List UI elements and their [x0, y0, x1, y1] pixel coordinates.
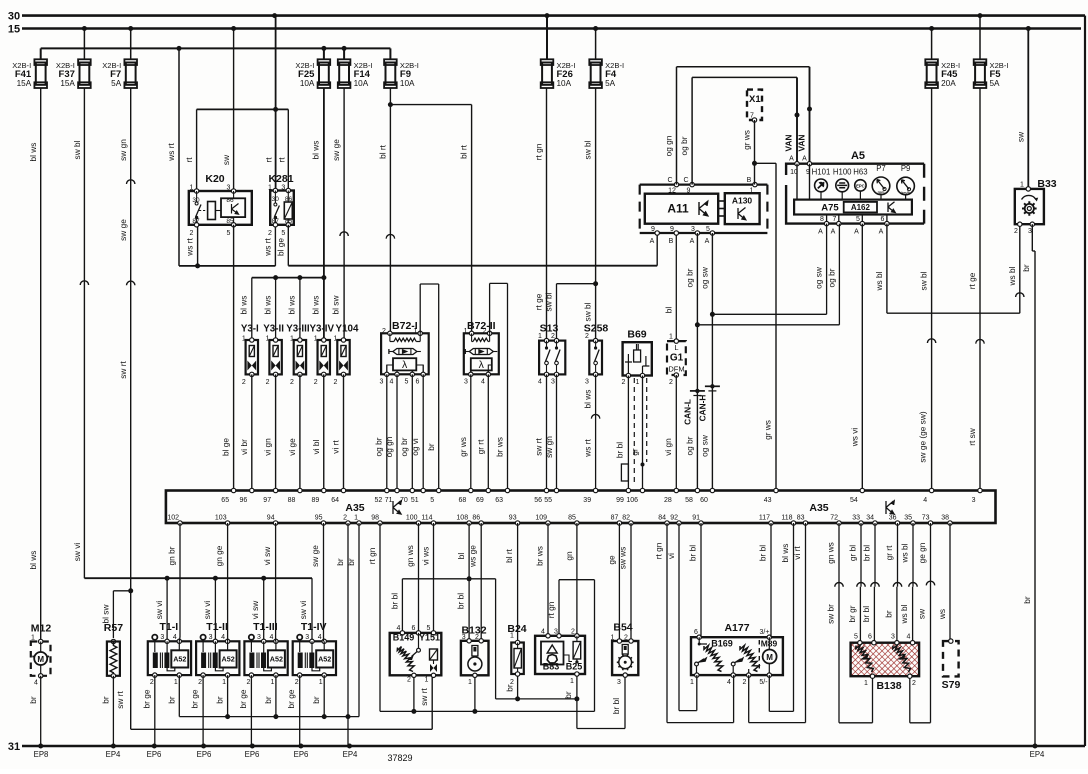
svg-text:118: 118	[781, 515, 792, 522]
solenoid valve Y3-II	[263, 324, 284, 387]
solenoid valve Y104	[334, 324, 359, 387]
switch S258	[584, 323, 609, 386]
svg-text:br bl: br bl	[862, 545, 872, 561]
wire T1-III pin2 br ge to EP6	[238, 675, 252, 746]
svg-text:EPC: EPC	[856, 183, 865, 188]
wire G1 pin2 vi gn to A35 pin28	[663, 375, 677, 491]
svg-text:sw rt: sw rt	[118, 361, 128, 379]
svg-text:1: 1	[270, 679, 274, 686]
svg-text:EP6: EP6	[197, 750, 212, 759]
knock sensor B69	[621, 329, 651, 387]
ground EP4 right	[1030, 744, 1045, 760]
svg-text:bl ws: bl ws	[780, 544, 790, 563]
wire A35 pin114 vi ws to Y151 pin5	[421, 523, 434, 633]
svg-text:og br: og br	[373, 437, 383, 456]
wire R57 br to EP4	[100, 676, 113, 746]
svg-text:5A: 5A	[990, 79, 1001, 88]
wire M12 br to EP8	[28, 676, 41, 746]
wire B69 pin2 br bl to A35 pin99	[615, 376, 629, 491]
wire B72-II pin4 to A35 pin69 gr rt	[475, 374, 488, 490]
svg-text:sw ge: sw ge	[310, 545, 320, 567]
instrument cluster A5	[786, 150, 924, 224]
svg-text:20A: 20A	[941, 79, 956, 88]
wire A35 pin109 br ws to B83 pin4	[535, 523, 549, 636]
svg-text:56: 56	[534, 497, 542, 504]
svg-text:sw bl: sw bl	[583, 140, 593, 159]
svg-text:31: 31	[8, 741, 20, 753]
svg-text:2: 2	[912, 680, 916, 687]
svg-text:35: 35	[904, 515, 912, 522]
warning lamp H100	[833, 168, 852, 200]
svg-text:bl ws: bl ws	[263, 296, 273, 315]
svg-text:rt gn: rt gn	[367, 547, 377, 564]
svg-text:ws: ws	[937, 609, 947, 620]
svg-text:sw bl: sw bl	[583, 302, 593, 321]
svg-text:ge gn: ge gn	[917, 542, 927, 563]
svg-text:H100: H100	[833, 168, 852, 177]
fuse F26	[541, 59, 576, 88]
ignition coil T1-I	[148, 621, 191, 686]
svg-text:S13: S13	[540, 323, 559, 335]
svg-text:70: 70	[400, 497, 408, 504]
svg-text:br: br	[263, 696, 273, 704]
pedal sensor B138	[851, 634, 920, 693]
wire fuse F37 supply	[83, 29, 85, 60]
svg-text:5A: 5A	[111, 79, 122, 88]
wire gr ws branch to A35 pin43	[755, 163, 777, 490]
svg-text:S79: S79	[942, 679, 961, 691]
svg-text:sw ge: sw ge	[118, 219, 128, 241]
svg-text:A52: A52	[318, 655, 331, 664]
svg-text:69: 69	[476, 497, 484, 504]
ground EP6 3	[245, 744, 260, 760]
svg-text:sw ws: sw ws	[618, 547, 628, 570]
svg-text:114: 114	[421, 515, 432, 522]
svg-text:98: 98	[371, 515, 379, 522]
svg-text:2: 2	[268, 230, 272, 237]
svg-text:λ: λ	[479, 359, 485, 371]
wire Y3-I to A35 pin96 vi br	[239, 374, 252, 490]
svg-text:ws ge: ws ge	[468, 545, 478, 568]
fuse F9	[384, 59, 419, 88]
svg-text:gr bl: gr bl	[848, 545, 858, 561]
svg-text:og br: og br	[679, 136, 689, 155]
svg-text:6: 6	[694, 629, 698, 636]
svg-text:30: 30	[8, 11, 20, 23]
svg-text:Y3-III: Y3-III	[286, 324, 310, 335]
svg-text:3: 3	[464, 379, 468, 386]
svg-text:A52: A52	[222, 655, 235, 664]
svg-text:vi sw: vi sw	[262, 546, 272, 565]
svg-text:15A: 15A	[17, 79, 32, 88]
svg-text:71: 71	[385, 497, 393, 504]
svg-text:A: A	[879, 229, 884, 236]
svg-text:br bl: br bl	[758, 545, 768, 561]
svg-text:5: 5	[427, 625, 431, 632]
svg-text:3: 3	[691, 226, 695, 233]
wire og sw branch to A5 pin8	[712, 224, 826, 315]
wire A35 pin117 br bl to A177 pin3	[758, 523, 772, 637]
svg-text:sw vi: sw vi	[298, 601, 308, 620]
A11 A130 link lines	[718, 201, 725, 216]
resistor R57	[104, 622, 123, 678]
svg-text:bl ws: bl ws	[583, 390, 593, 409]
svg-text:4: 4	[34, 680, 38, 687]
svg-text:3: 3	[891, 634, 895, 641]
svg-text:96: 96	[240, 497, 248, 504]
wire F25 bl ws to valves	[311, 88, 327, 340]
svg-text:9: 9	[670, 226, 674, 233]
wire X1 gr ws to A11 pinB1	[742, 120, 758, 185]
svg-text:ge: ge	[606, 555, 616, 565]
valve supply rail bl ws	[239, 275, 324, 340]
svg-text:2: 2	[571, 629, 575, 636]
svg-text:bl ge: bl ge	[275, 238, 285, 256]
svg-text:br: br	[884, 610, 894, 618]
svg-text:ws rt: ws rt	[583, 439, 593, 458]
svg-text:51: 51	[411, 497, 419, 504]
svg-text:2: 2	[190, 230, 194, 237]
svg-text:91: 91	[692, 515, 700, 522]
wire F14 sw ge / bl sw to Y104	[331, 88, 349, 340]
svg-text:10A: 10A	[354, 79, 369, 88]
svg-text:sw gn: sw gn	[118, 139, 128, 161]
svg-text:sw rt: sw rt	[115, 691, 125, 709]
svg-text:br: br	[166, 696, 176, 704]
wire bus15 sw to B33	[1015, 29, 1028, 189]
wire A35 pin103 gn ge to T1-II	[214, 523, 228, 641]
svg-text:br: br	[346, 558, 356, 566]
wire A35 pin91 br bl to A177 pin6	[688, 523, 702, 637]
wire A35 pin83 vi rt to A177 pin2	[749, 523, 806, 723]
svg-text:M12: M12	[31, 623, 52, 635]
svg-text:vi ws: vi ws	[421, 547, 431, 565]
svg-text:br ws: br ws	[535, 546, 545, 566]
svg-text:EP4: EP4	[1030, 750, 1045, 759]
svg-text:2: 2	[150, 679, 154, 686]
svg-text:102: 102	[167, 515, 179, 522]
svg-text:3: 3	[257, 634, 261, 641]
svg-text:sw gn: sw gn	[544, 436, 554, 458]
svg-text:39: 39	[583, 497, 591, 504]
svg-text:H101: H101	[812, 168, 831, 177]
svg-text:64: 64	[331, 497, 339, 504]
wire B69 pin1 gr to A35 pin106	[630, 376, 645, 491]
svg-text:A: A	[802, 156, 807, 163]
bus 30 terminal	[8, 11, 1085, 23]
svg-text:B25: B25	[566, 662, 583, 672]
wire ws rt feed to relays	[166, 48, 275, 268]
wire A35 pin36 gr rt br to B138 pin3	[884, 523, 902, 643]
svg-text:ws bl: ws bl	[900, 543, 910, 563]
solenoid valve Y3-III	[286, 324, 310, 387]
svg-text:1: 1	[690, 679, 694, 686]
fuse F37	[56, 59, 91, 88]
svg-text:83: 83	[797, 515, 805, 522]
sensor B149 valve Y151	[390, 625, 442, 684]
svg-text:99: 99	[616, 497, 624, 504]
svg-text:33: 33	[852, 515, 860, 522]
svg-text:ws vi: ws vi	[849, 428, 859, 448]
wire F4 sw bl to S258	[583, 88, 599, 341]
wire VAN og br A11 C9 to A5	[679, 77, 799, 184]
svg-text:G1: G1	[670, 353, 684, 364]
wire B72-I pin5 to A35 pin70 og br	[399, 374, 413, 490]
svg-text:4: 4	[923, 497, 927, 504]
svg-text:bl: bl	[456, 553, 466, 560]
svg-text:vi bl: vi bl	[311, 439, 321, 454]
svg-text:A52: A52	[173, 655, 186, 664]
svg-text:2: 2	[343, 515, 347, 522]
wire Y3-II to A35 pin97 vi gn	[263, 374, 276, 490]
svg-text:br ge: br ge	[190, 689, 200, 708]
svg-text:Y104: Y104	[336, 324, 359, 335]
svg-text:B149: B149	[393, 633, 415, 643]
svg-text:sw vi: sw vi	[154, 601, 164, 620]
wire B33 pin3 br to ground EP4	[1021, 224, 1035, 746]
svg-text:A: A	[831, 229, 836, 236]
svg-text:4: 4	[397, 625, 401, 632]
svg-text:3: 3	[617, 679, 621, 686]
svg-text:Y3-IV: Y3-IV	[309, 324, 334, 335]
svg-text:br bl: br bl	[389, 593, 399, 609]
control unit A130	[725, 193, 760, 224]
svg-text:sw rt: sw rt	[419, 688, 429, 706]
wire A35 pin82 sw ws to B54 pin2	[618, 523, 632, 641]
svg-text:og br: og br	[399, 437, 409, 456]
svg-text:68: 68	[459, 497, 467, 504]
svg-text:A: A	[650, 238, 655, 245]
svg-text:6: 6	[881, 216, 885, 223]
svg-text:B54: B54	[613, 622, 632, 634]
svg-text:vi: vi	[666, 553, 676, 559]
wire fuse F4 supply	[595, 29, 597, 60]
svg-text:3: 3	[209, 634, 213, 641]
wire og br branch to A5 pin7	[697, 224, 839, 325]
svg-text:7: 7	[833, 216, 837, 223]
svg-text:A: A	[705, 238, 710, 245]
fuse F14	[338, 59, 373, 88]
svg-text:117: 117	[759, 515, 770, 522]
svg-text:1: 1	[510, 633, 514, 640]
coil ground rail br	[166, 675, 359, 719]
ground EP6 2	[197, 744, 212, 760]
svg-text:1: 1	[750, 188, 754, 195]
bus 15 terminal	[8, 24, 1081, 36]
svg-text:2: 2	[621, 379, 625, 386]
svg-text:5/-: 5/-	[759, 679, 768, 686]
wire fuse F7 supply	[130, 29, 132, 60]
fuse F41	[12, 59, 47, 88]
svg-text:CAN-L: CAN-L	[682, 399, 692, 425]
svg-text:82: 82	[622, 515, 630, 522]
svg-text:94: 94	[267, 515, 275, 522]
svg-text:og sw: og sw	[814, 266, 824, 289]
svg-text:EP4: EP4	[106, 750, 121, 759]
svg-text:br: br	[100, 696, 110, 704]
svg-text:5: 5	[854, 634, 858, 641]
svg-text:VAN: VAN	[784, 135, 794, 152]
svg-text:sw bl: sw bl	[919, 271, 929, 290]
svg-text:A75: A75	[821, 203, 839, 214]
wire A35 pin84 rt gn to A177 pin4	[654, 523, 734, 723]
warning lamp H101	[812, 168, 831, 200]
svg-text:T1-I: T1-I	[159, 621, 178, 633]
svg-text:vi gn: vi gn	[663, 438, 673, 456]
svg-text:br ge: br ge	[286, 689, 296, 708]
svg-text:1: 1	[1020, 182, 1024, 189]
wire B149 pin4 br bl branch	[389, 579, 469, 633]
svg-text:bl: bl	[663, 307, 673, 314]
wire T1-II pin2 br ge to EP6	[190, 675, 204, 746]
svg-text:og sw: og sw	[699, 266, 709, 289]
lambda probe B72-II	[464, 320, 499, 376]
svg-text:CAN-H: CAN-H	[697, 395, 707, 422]
A11 bottom pins	[650, 226, 715, 245]
svg-text:rpm: rpm	[878, 191, 885, 195]
svg-text:EP8: EP8	[34, 750, 49, 759]
svg-text:60: 60	[700, 497, 708, 504]
pin labels B72-II bottom	[464, 379, 485, 386]
wire S13 pin3 to A35 pin55 sw gn	[544, 374, 557, 490]
coil supply rail sw vi	[84, 576, 312, 642]
control unit A11	[645, 194, 718, 224]
svg-text:3: 3	[1028, 228, 1032, 235]
wire B72-I pin4 to A35 pin71 og gn	[384, 374, 397, 490]
wire S13 pin4 to A35 pin56 sw rt	[534, 374, 547, 490]
svg-text:A35: A35	[809, 502, 828, 514]
svg-text:A52: A52	[270, 655, 283, 664]
svg-text:4: 4	[538, 379, 542, 386]
svg-text:rt ge: rt ge	[967, 272, 977, 289]
svg-text:95: 95	[315, 515, 323, 522]
svg-text:L: L	[674, 343, 678, 352]
svg-text:4: 4	[727, 679, 731, 686]
svg-text:gr ws: gr ws	[763, 420, 773, 440]
svg-text:A11: A11	[667, 202, 689, 216]
svg-text:85: 85	[568, 515, 576, 522]
control unit A11 A130 frame	[640, 185, 768, 233]
svg-text:vi gn: vi gn	[263, 438, 273, 456]
svg-text:36: 36	[889, 515, 897, 522]
svg-text:A35: A35	[345, 502, 364, 514]
right edge wire	[1084, 16, 1086, 746]
svg-text:103: 103	[215, 515, 227, 522]
svg-text:gn ge: gn ge	[214, 545, 224, 566]
svg-text:B69: B69	[627, 329, 646, 341]
svg-text:bl ws: bl ws	[28, 551, 38, 570]
svg-text:5: 5	[706, 226, 710, 233]
wire F37 sw bl / sw vi	[72, 88, 89, 578]
relay K281	[268, 173, 294, 237]
wire A35 pin33 gr bl br gr to B138 pin5	[847, 523, 865, 643]
throttle unit A177	[690, 622, 783, 686]
wire K20 pin5 to A35 pin65 bl ge	[221, 225, 234, 491]
svg-text:bl ge: bl ge	[221, 438, 231, 456]
ground EP8	[34, 744, 49, 760]
svg-text:rt: rt	[184, 157, 194, 163]
svg-text:ws rt: ws rt	[185, 238, 195, 257]
svg-text:3: 3	[160, 634, 164, 641]
wire A35 pin38 ws to S79	[937, 523, 950, 641]
wire A35 pin98 rt gn net	[367, 523, 595, 714]
svg-text:4: 4	[541, 629, 545, 636]
svg-text:vi rt: vi rt	[792, 546, 802, 560]
svg-text:rt gn: rt gn	[654, 542, 664, 559]
svg-text:bl rt: bl rt	[504, 548, 514, 563]
svg-text:EP6: EP6	[294, 750, 309, 759]
svg-text:2: 2	[334, 379, 338, 386]
VAN labels	[784, 135, 808, 163]
svg-text:R57: R57	[104, 622, 123, 634]
svg-text:rt sw: rt sw	[967, 427, 977, 446]
svg-text:vi ge: vi ge	[287, 438, 297, 456]
ignition coil T1-III	[244, 621, 287, 686]
wire A35 pin100 gn ws to B149 pin6	[405, 523, 419, 633]
svg-text:λ: λ	[402, 359, 408, 371]
svg-text:og br: og br	[684, 268, 694, 287]
wire A35 pin93 bl rt to B24 pin1	[504, 523, 518, 641]
svg-text:100: 100	[406, 515, 418, 522]
wire bus15 to K20 pin3 sw	[221, 29, 234, 192]
svg-text:og gn: og gn	[384, 436, 394, 457]
wire A35 pin86 ws ge to B132 pin2	[468, 523, 482, 641]
svg-text:B: B	[747, 177, 752, 184]
svg-text:gn br: gn br	[167, 546, 177, 565]
svg-text:T1-IV: T1-IV	[301, 621, 327, 633]
sender B132	[461, 625, 489, 687]
svg-text:P9: P9	[901, 164, 911, 173]
A75 symbol	[888, 202, 895, 213]
ground EP6 4	[294, 744, 309, 760]
svg-text:34: 34	[866, 515, 874, 522]
sender B54	[610, 622, 638, 687]
solenoid valve Y3-I	[241, 324, 259, 387]
svg-text:bl sw: bl sw	[331, 295, 341, 315]
svg-text:br: br	[1021, 264, 1031, 272]
svg-text:bl rt: bl rt	[459, 144, 469, 159]
svg-text:A: A	[854, 229, 859, 236]
svg-text:ws rt: ws rt	[166, 143, 176, 162]
svg-text:58: 58	[685, 497, 693, 504]
svg-text:109: 109	[535, 515, 547, 522]
svg-text:2: 2	[510, 679, 514, 686]
svg-text:sw vi: sw vi	[72, 543, 82, 562]
motor M12	[31, 623, 52, 687]
svg-text:1: 1	[319, 679, 323, 686]
wire bl rt branch to B72-II	[390, 105, 471, 334]
ground EP6 1	[147, 744, 162, 760]
svg-text:sw: sw	[917, 608, 927, 619]
fuse F5	[974, 59, 1009, 88]
svg-text:9: 9	[651, 226, 655, 233]
svg-text:2: 2	[242, 379, 246, 386]
wire B72-I pin6 to A35 pin51 og vi	[410, 374, 423, 490]
wire fuse F26 supply	[546, 16, 548, 60]
svg-text:88: 88	[288, 497, 296, 504]
engine control unit A35	[166, 491, 996, 524]
wire A35 pin102 gn br to T1-I	[167, 523, 181, 641]
svg-text:bl ws: bl ws	[287, 296, 297, 315]
svg-text:1: 1	[425, 677, 429, 684]
wire B25 pin1 br to B54 pin3	[563, 674, 625, 729]
wire A35 pin92 vi to A177 pin1	[666, 523, 697, 711]
wire VAN og gn A11 C12 to A5	[664, 67, 813, 185]
svg-text:C: C	[667, 177, 672, 184]
svg-text:og br: og br	[684, 436, 694, 455]
wire A35 pin95 sw ge to T1-IV	[310, 523, 324, 641]
svg-text:2: 2	[407, 677, 411, 684]
